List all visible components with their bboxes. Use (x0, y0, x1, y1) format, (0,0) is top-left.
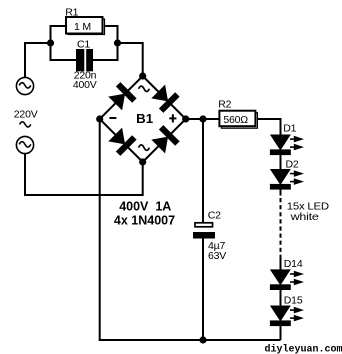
capacitor C1 (73, 39, 97, 92)
wire: top rail from AC source L1 to left junction (25, 43, 51, 77)
tilde top inside bridge (139, 86, 150, 91)
svg-text:D15: D15 (284, 294, 303, 306)
node: bridge right vertex (182, 115, 189, 122)
LED D15 (270, 294, 304, 326)
svg-text:560Ω: 560Ω (223, 114, 248, 126)
LED D2 (270, 159, 304, 190)
svg-text:R1: R1 (65, 7, 78, 19)
diode B1 bottom-left (107, 126, 137, 156)
svg-text:63V: 63V (208, 250, 226, 262)
node: bridge bottom vertex (139, 158, 146, 165)
svg-text:D2: D2 (286, 159, 299, 171)
wire: C1 right lead (93, 42, 118, 60)
node: bridge left vertex (96, 115, 103, 122)
wire: solid stub below D2 (280, 190, 282, 196)
wire: D14 to D15 (280, 290, 282, 306)
svg-text:C2: C2 (208, 210, 221, 222)
label 220V ~ (14, 108, 38, 127)
node: bridge top vertex (139, 72, 146, 79)
svg-text:4x 1N4007: 4x 1N4007 (114, 213, 175, 227)
diode B1 top-right (150, 83, 180, 113)
node: left junction dot (47, 39, 54, 46)
svg-text:white: white (289, 211, 319, 223)
diode B1 bottom-right (150, 125, 180, 155)
plus sign right inside bridge (169, 114, 176, 122)
svg-text:220V: 220V (14, 108, 38, 120)
svg-text:D14: D14 (284, 258, 303, 270)
svg-text:diyleyuan.com: diyleyuan.com (265, 343, 342, 354)
wire: bridge minus output down to bottom rail (100, 122, 281, 340)
wire: C2 to bottom rail (202, 238, 204, 340)
LED D14 (270, 258, 304, 290)
node: junction at C2 branch (199, 115, 206, 122)
svg-text:D1: D1 (283, 122, 296, 134)
svg-text:400V: 400V (73, 79, 97, 91)
capacitor C2 (electrolytic) (193, 210, 226, 263)
wire: AC source G2 down and right to bridge bottom vertex (25, 154, 143, 195)
tilde bottom inside bridge (139, 145, 150, 150)
svg-text:R2: R2 (218, 99, 231, 111)
wire: D15 to bottom rail (280, 326, 282, 340)
resistor R1 (65, 7, 104, 35)
wire: R1 right lead (105, 26, 118, 44)
LED D1 (270, 122, 304, 155)
wire: D1 to D2 (280, 155, 282, 169)
wire: bridge plus output to R2 (188, 118, 219, 120)
minus sign left inside bridge (109, 117, 116, 119)
wire: C1 left lead (51, 42, 77, 60)
resistor R2 (218, 99, 257, 129)
svg-text:400V 1A: 400V 1A (119, 200, 171, 214)
svg-text:C1: C1 (77, 39, 90, 51)
wire: C2 branch down (202, 119, 204, 222)
node: right junction dot (114, 39, 121, 46)
AC source G2 (bottom) (16, 136, 33, 153)
wire: solid stub above D14 (280, 257, 282, 270)
bridge rectifier B1 diamond (96, 72, 189, 165)
wire: dashed LED chain continuation (280, 198, 282, 257)
node: bottom rail junction dot (199, 336, 206, 343)
diode B1 top-left (107, 82, 137, 112)
svg-text:1 M: 1 M (74, 21, 91, 33)
wire: R2 to LED chain top (258, 119, 281, 135)
wire: R1 left lead (51, 26, 67, 44)
wire: right junction to bridge top vertex (118, 43, 143, 76)
svg-text:B1: B1 (136, 111, 153, 126)
AC source G1 (top) (16, 77, 33, 94)
